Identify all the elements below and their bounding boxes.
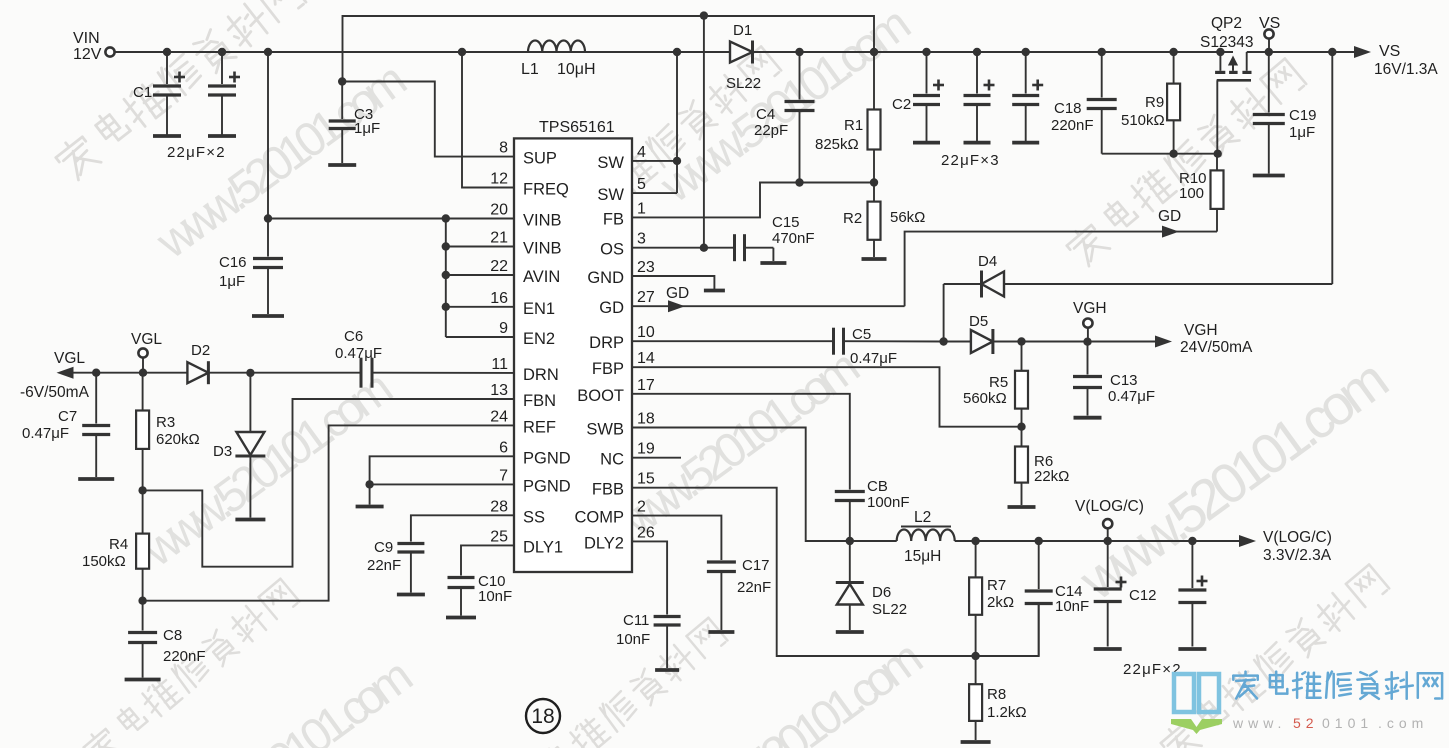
transistor QP2 S12343 (P-MOSFET): [1200, 15, 1253, 154]
svg-text:EN1: EN1: [523, 300, 555, 318]
svg-text:100: 100: [1179, 185, 1204, 202]
svg-text:220nF: 220nF: [163, 648, 206, 665]
svg-text:470nF: 470nF: [772, 230, 815, 247]
svg-text:R9: R9: [1145, 94, 1164, 111]
svg-text:28: 28: [490, 498, 508, 515]
svg-text:C17: C17: [742, 557, 770, 574]
wire VGH row: [994, 337, 1155, 346]
svg-text:22nF: 22nF: [737, 579, 771, 596]
capacitor C10: [446, 545, 514, 617]
svg-text:10nF: 10nF: [616, 631, 650, 648]
svg-text:PGND: PGND: [523, 449, 571, 467]
logo url text: [1232, 715, 1428, 731]
svg-text:C19: C19: [1289, 107, 1317, 124]
wire VS to D4: [1004, 52, 1332, 284]
ground C15: [760, 261, 786, 265]
svg-text:FBB: FBB: [592, 481, 624, 499]
svg-text:C1: C1: [133, 84, 152, 101]
wire SWB pin: [632, 428, 854, 546]
wire D4 to DRP node: [943, 284, 945, 342]
svg-text:R2: R2: [843, 210, 862, 227]
capacitor C17 22nF: [632, 516, 771, 632]
svg-text:19: 19: [637, 441, 655, 458]
svg-text:22kΩ: 22kΩ: [1034, 468, 1069, 485]
capacitor C12 (22uF x2, first): [1094, 541, 1182, 678]
svg-text:C11: C11: [623, 612, 649, 629]
svg-text:25: 25: [490, 528, 508, 545]
ground R6: [1008, 505, 1036, 509]
capacitor C3: [328, 82, 380, 166]
svg-text:16: 16: [490, 290, 508, 307]
svg-text:C4: C4: [756, 106, 775, 123]
wire GD gate drive: [632, 208, 1217, 312]
svg-text:SWB: SWB: [586, 421, 624, 439]
capacitor C19 1uF: [1253, 52, 1317, 176]
capacitor C2 (22uF x3, second): [964, 52, 995, 143]
node VGL output arrow: [20, 350, 187, 401]
svg-text:27: 27: [637, 289, 655, 306]
svg-text:R5: R5: [989, 374, 1008, 391]
capacitor C9: [367, 515, 514, 594]
ground R8: [961, 740, 991, 744]
capacitor C16: [219, 219, 284, 317]
svg-text:VGH: VGH: [1073, 300, 1107, 317]
svg-text:13: 13: [490, 382, 508, 399]
wire FREQ feed: [462, 52, 514, 188]
svg-text:825kΩ: 825kΩ: [815, 136, 859, 153]
svg-text:D3: D3: [213, 443, 232, 460]
svg-text:17: 17: [637, 377, 655, 394]
logo site name text: [1233, 672, 1442, 699]
svg-text:22μF×3: 22μF×3: [941, 152, 1000, 169]
svg-text:GD: GD: [666, 285, 689, 302]
page number 18: [526, 699, 560, 733]
svg-text:2kΩ: 2kΩ: [987, 594, 1014, 611]
svg-text:L1: L1: [521, 61, 539, 78]
wire gate node: [1102, 150, 1222, 158]
svg-text:C5: C5: [852, 326, 871, 343]
svg-text:20: 20: [490, 202, 508, 219]
wire SUP feed: [342, 82, 514, 157]
capacitor C14 10nF: [1025, 541, 1090, 656]
svg-text:10nF: 10nF: [478, 588, 512, 605]
svg-text:560kΩ: 560kΩ: [963, 390, 1007, 407]
svg-text:7: 7: [499, 467, 508, 484]
capacitor C6: [335, 328, 382, 388]
svg-text:C9: C9: [374, 539, 393, 556]
svg-text:VGL: VGL: [54, 350, 85, 367]
resistor R7 2k: [969, 541, 1014, 656]
diode D4: [944, 253, 1004, 298]
svg-text:C8: C8: [163, 627, 182, 644]
wire DRP pin: [632, 340, 832, 342]
wire GND pin 23: [632, 276, 714, 289]
svg-text:620kΩ: 620kΩ: [156, 431, 200, 448]
ground R2: [862, 257, 887, 261]
svg-text:0.47μF: 0.47μF: [335, 345, 382, 362]
svg-text:SW: SW: [597, 154, 624, 172]
svg-text:24: 24: [490, 408, 508, 425]
wire REF feedback: [143, 425, 514, 600]
capacitor C15 470nF: [735, 214, 815, 261]
ground pin 23: [704, 289, 725, 293]
node VIN terminal: [73, 30, 115, 63]
svg-text:22pF: 22pF: [754, 122, 788, 139]
svg-text:GD: GD: [599, 299, 624, 317]
svg-text:FBP: FBP: [592, 360, 624, 378]
svg-text:1μF: 1μF: [219, 273, 245, 290]
svg-text:0101: 0101: [1322, 715, 1373, 731]
svg-text:VINB: VINB: [523, 212, 562, 230]
svg-text:D5: D5: [969, 313, 988, 330]
resistor R9 510k: [1121, 52, 1180, 154]
svg-text:12: 12: [490, 171, 508, 188]
svg-text:VGH: VGH: [1184, 322, 1218, 339]
ground PGND: [356, 484, 384, 506]
svg-text:10nF: 10nF: [1055, 598, 1089, 615]
capacitor C18 220nF: [1051, 52, 1117, 154]
node VGH output arrow: [1155, 322, 1253, 356]
svg-text:DRN: DRN: [523, 366, 559, 384]
svg-text:6: 6: [499, 439, 508, 456]
svg-text:FB: FB: [603, 210, 624, 228]
capacitor CB 100nF: [835, 478, 910, 541]
wire FBN feedback: [143, 399, 514, 567]
wire OS pin: [632, 244, 733, 252]
svg-text:BOOT: BOOT: [577, 387, 624, 405]
svg-text:R1: R1: [844, 117, 863, 134]
svg-text:OS: OS: [600, 241, 624, 259]
capacitor C13 0.47uF: [1073, 342, 1155, 418]
node VGL terminal: [131, 331, 162, 377]
svg-text:SL22: SL22: [872, 601, 907, 618]
svg-text:21: 21: [490, 230, 508, 247]
node VS terminal: [1259, 15, 1280, 52]
svg-text:EN2: EN2: [523, 330, 555, 348]
svg-text:52: 52: [1293, 715, 1319, 731]
wire FBB feedback: [632, 488, 1039, 661]
wire BOOT pin: [632, 394, 850, 490]
svg-text:GD: GD: [1158, 208, 1181, 225]
svg-text:C2: C2: [892, 96, 911, 113]
capacitor C1 (22uF x2, first): [133, 52, 226, 161]
svg-text:0.47μF: 0.47μF: [1108, 388, 1155, 405]
wire top boost output: [338, 11, 874, 247]
capacitor C8: [125, 597, 206, 680]
svg-text:-6V/50mA: -6V/50mA: [20, 384, 90, 401]
wire VINB feed: [264, 52, 514, 223]
svg-text:1μF: 1μF: [1289, 124, 1315, 141]
svg-text:VS: VS: [1379, 43, 1400, 60]
svg-text:1: 1: [637, 200, 646, 217]
diode D3: [213, 373, 265, 520]
diode D1 SL22: [726, 22, 761, 92]
svg-text:22μF×2: 22μF×2: [167, 144, 226, 161]
svg-text:GND: GND: [587, 269, 624, 287]
wire PGND pins: [365, 456, 514, 488]
svg-text:C6: C6: [344, 328, 363, 345]
diode D5: [939, 313, 993, 354]
svg-text:16V/1.3A: 16V/1.3A: [1374, 61, 1438, 78]
svg-text:NC: NC: [600, 451, 624, 469]
svg-text:L2: L2: [914, 509, 931, 526]
svg-text:SUP: SUP: [523, 150, 557, 168]
svg-text:R8: R8: [987, 686, 1006, 703]
resistor R3 620k: [136, 373, 200, 491]
svg-text:CB: CB: [867, 478, 888, 495]
capacitor C2 (22uF x3, first): [892, 52, 1000, 169]
svg-text:TPS65161: TPS65161: [539, 119, 615, 136]
svg-text:510kΩ: 510kΩ: [1121, 112, 1165, 129]
svg-text:REF: REF: [523, 418, 556, 436]
svg-text:1μF: 1μF: [354, 120, 380, 137]
svg-text:C18: C18: [1054, 100, 1082, 117]
svg-text:22nF: 22nF: [367, 557, 401, 574]
svg-text:C7: C7: [58, 408, 77, 425]
svg-text:S12343: S12343: [1200, 34, 1253, 51]
svg-text:DRP: DRP: [589, 334, 624, 352]
svg-text:DLY1: DLY1: [523, 538, 563, 556]
svg-text:14: 14: [637, 350, 655, 367]
capacitor C1 (22uF x2, second): [208, 52, 240, 136]
svg-text:D1: D1: [733, 22, 752, 39]
svg-text:5: 5: [637, 176, 646, 193]
svg-text:FREQ: FREQ: [523, 181, 569, 199]
svg-text:V(LOG/C): V(LOG/C): [1263, 529, 1332, 546]
node VGH terminal: [1073, 300, 1107, 342]
resistor R4 150k: [82, 486, 149, 601]
svg-text:V(LOG/C): V(LOG/C): [1075, 498, 1144, 515]
svg-text:4: 4: [637, 144, 646, 161]
capacitor C2 (22uF x3, third): [1012, 52, 1043, 143]
svg-text:COMP: COMP: [575, 509, 625, 527]
diode D6 SL22: [836, 541, 907, 632]
svg-text:D6: D6: [872, 584, 891, 601]
wire VIN rail: [115, 48, 730, 56]
svg-text:SW: SW: [597, 186, 624, 204]
wire FB feedback: [632, 178, 878, 217]
svg-text:VS: VS: [1259, 15, 1280, 32]
svg-text:VINB: VINB: [523, 240, 562, 258]
svg-text:15: 15: [637, 471, 655, 488]
svg-text:C16: C16: [219, 254, 247, 271]
capacitor C7: [22, 369, 114, 480]
resistor R8 1.2k: [969, 656, 1026, 740]
svg-text:SL22: SL22: [726, 75, 761, 92]
capacitor C4 22pF: [754, 52, 815, 183]
svg-text:23: 23: [637, 259, 655, 276]
svg-text:DLY2: DLY2: [584, 534, 624, 552]
svg-text:SS: SS: [523, 508, 545, 526]
svg-text:C12: C12: [1129, 587, 1157, 604]
svg-text:0.47μF: 0.47μF: [22, 425, 69, 442]
svg-text:C13: C13: [1110, 372, 1138, 389]
svg-text:0.47μF: 0.47μF: [850, 350, 897, 367]
diode D2: [187, 342, 210, 384]
capacitor C5 0.47uF: [834, 326, 944, 367]
svg-text:QP2: QP2: [1211, 15, 1242, 32]
svg-text:9: 9: [499, 320, 508, 337]
svg-text:56kΩ: 56kΩ: [890, 209, 925, 226]
svg-text:D4: D4: [978, 253, 997, 270]
wire V(LOG/C) rail: [955, 537, 1240, 545]
node V(LOG/C) output arrow: [1239, 529, 1332, 564]
resistor R6 22k: [1015, 427, 1069, 505]
svg-text:D2: D2: [191, 342, 210, 359]
wire VINB/AVIN/EN bus: [442, 219, 514, 338]
capacitor C12 (22uF x2, second): [1178, 541, 1207, 649]
svg-text:24V/50mA: 24V/50mA: [1180, 339, 1253, 356]
svg-text:150kΩ: 150kΩ: [82, 553, 126, 570]
svg-text:R3: R3: [156, 414, 175, 431]
svg-text:12V: 12V: [73, 46, 102, 63]
svg-text:C15: C15: [772, 214, 800, 231]
svg-text:2: 2: [637, 499, 646, 516]
svg-text:AVIN: AVIN: [523, 268, 560, 286]
svg-text:R4: R4: [109, 536, 128, 553]
svg-text:PGND: PGND: [523, 477, 571, 495]
svg-text:11: 11: [491, 356, 508, 373]
resistor R1 825k: [815, 52, 881, 183]
wire SW pins to L1: [632, 52, 681, 193]
svg-text:10μH: 10μH: [557, 61, 596, 78]
svg-text:18: 18: [637, 411, 655, 428]
resistor R10 100: [1179, 154, 1224, 232]
inductor L2 15uH: [850, 509, 955, 565]
IC U1 TPS65161: [490, 119, 655, 572]
resistor R2 56k: [843, 183, 925, 258]
svg-text:26: 26: [637, 524, 655, 541]
wire VS rail: [753, 48, 1355, 56]
svg-text:1.2kΩ: 1.2kΩ: [987, 704, 1027, 721]
node V(LOG/C) terminal: [1075, 498, 1144, 541]
svg-text:10: 10: [637, 324, 655, 341]
svg-text:3.3V/2.3A: 3.3V/2.3A: [1263, 547, 1332, 564]
svg-text:.com: .com: [1378, 715, 1428, 731]
wire DRN row: [208, 369, 514, 377]
resistor R5 560k: [963, 342, 1028, 427]
svg-text:VGL: VGL: [131, 331, 162, 348]
node VS output arrow: [1354, 43, 1438, 78]
svg-text:R7: R7: [987, 577, 1006, 594]
svg-text:www.: www.: [1232, 715, 1286, 731]
svg-text:18: 18: [531, 705, 554, 728]
svg-text:22: 22: [490, 258, 508, 275]
wire NC pin stub: [632, 457, 681, 459]
svg-text:VIN: VIN: [73, 30, 100, 47]
svg-text:3: 3: [637, 231, 646, 248]
capacitor C11 10nF: [616, 541, 681, 670]
wire FBP feedback: [632, 367, 1026, 431]
svg-text:15μH: 15μH: [904, 548, 941, 565]
svg-text:8: 8: [499, 140, 508, 157]
logo book icon: [1171, 674, 1222, 734]
svg-text:100nF: 100nF: [867, 494, 910, 511]
svg-text:FBN: FBN: [523, 392, 556, 410]
inductor L1 10uH: [521, 41, 596, 79]
svg-text:220nF: 220nF: [1051, 117, 1094, 134]
